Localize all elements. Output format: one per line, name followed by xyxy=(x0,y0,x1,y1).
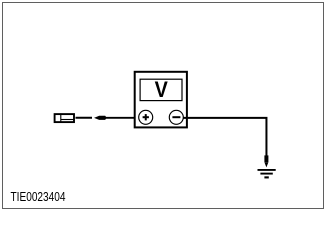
eyelet terminal xyxy=(264,155,268,167)
wire xyxy=(76,117,93,119)
svg-text:TIE0023404: TIE0023404 xyxy=(11,189,66,204)
terminal - xyxy=(169,110,183,124)
terminal + xyxy=(139,110,153,124)
splice terminal xyxy=(94,116,107,120)
connector C1 xyxy=(55,113,75,122)
wire xyxy=(183,118,266,156)
voltmeter U1 xyxy=(135,72,187,128)
wire xyxy=(106,117,139,119)
ground G1 xyxy=(258,170,276,178)
svg-text:V: V xyxy=(155,77,168,102)
